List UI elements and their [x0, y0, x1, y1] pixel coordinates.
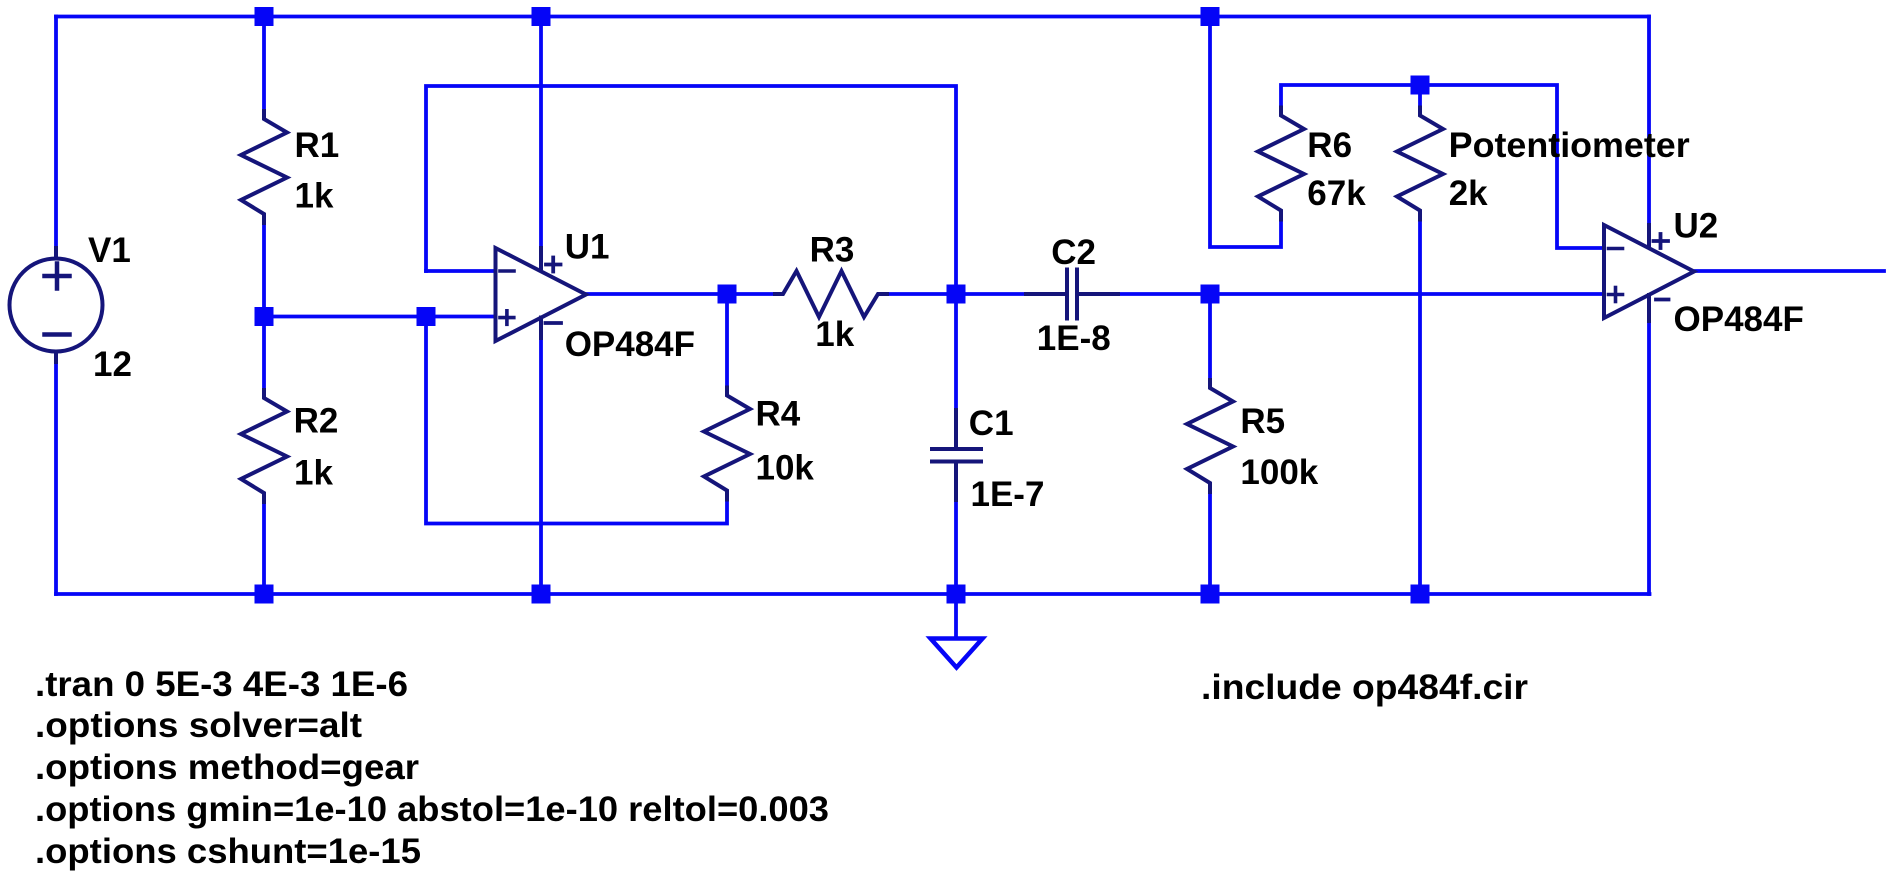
svg-text:V1: V1 — [88, 231, 131, 270]
svg-text:.options gmin=1e-10 abstol=1e-: .options gmin=1e-10 abstol=1e-10 reltol=… — [35, 790, 829, 829]
svg-text:.tran 0 5E-3 4E-3 1E-6: .tran 0 5E-3 4E-3 1E-6 — [35, 665, 408, 704]
svg-text:1E-8: 1E-8 — [1037, 319, 1111, 358]
svg-text:100k: 100k — [1240, 453, 1318, 492]
svg-text:R1: R1 — [295, 126, 340, 165]
svg-text:OP484F: OP484F — [565, 325, 695, 364]
svg-text:1k: 1k — [295, 177, 334, 216]
svg-text:U1: U1 — [565, 228, 610, 267]
svg-text:R4: R4 — [756, 395, 801, 434]
svg-text:.options solver=alt: .options solver=alt — [35, 706, 362, 745]
svg-text:R2: R2 — [294, 402, 339, 441]
svg-text:Potentiometer: Potentiometer — [1449, 126, 1690, 165]
svg-text:OP484F: OP484F — [1674, 300, 1804, 339]
svg-text:.options cshunt=1e-15: .options cshunt=1e-15 — [35, 832, 421, 871]
svg-text:C2: C2 — [1051, 233, 1096, 272]
svg-text:67k: 67k — [1307, 174, 1366, 213]
svg-text:10k: 10k — [756, 449, 815, 488]
svg-text:R3: R3 — [810, 231, 855, 270]
svg-text:1k: 1k — [294, 454, 333, 493]
svg-text:.options method=gear: .options method=gear — [35, 748, 419, 787]
svg-text:R6: R6 — [1307, 126, 1352, 165]
svg-text:1E-7: 1E-7 — [971, 475, 1045, 514]
svg-text:1k: 1k — [815, 315, 854, 354]
svg-text:12: 12 — [93, 345, 132, 384]
svg-text:C1: C1 — [969, 404, 1014, 443]
svg-text:2k: 2k — [1449, 174, 1488, 213]
svg-text:U2: U2 — [1674, 207, 1719, 246]
svg-text:.include op484f.cir: .include op484f.cir — [1201, 668, 1528, 707]
svg-text:R5: R5 — [1240, 402, 1285, 441]
